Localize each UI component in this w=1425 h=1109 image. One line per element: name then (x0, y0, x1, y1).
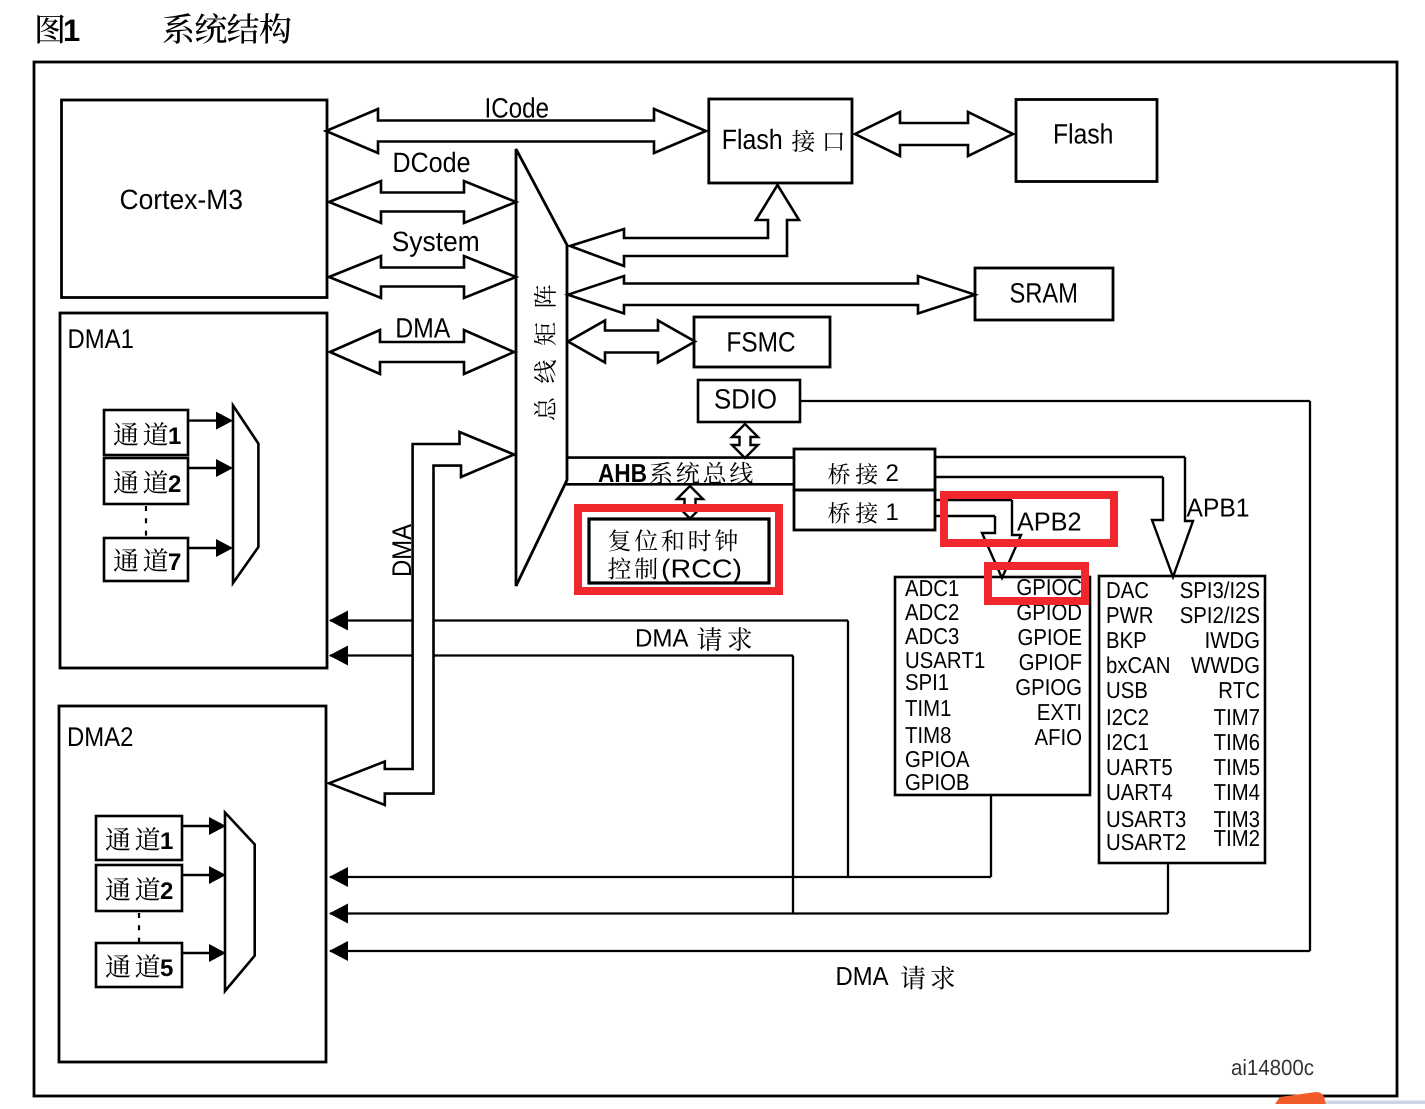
label periph I2C1 (1108, 734, 1148, 750)
wire DMA2 request lineB (330, 912, 1168, 914)
label Flash of Flash接口 (724, 129, 781, 150)
arrow matrix to SRAM (568, 276, 975, 314)
label 通道 of DMA1 ch1 (114, 422, 168, 446)
box SRAM (975, 268, 1113, 320)
box DMA2 channel2 (96, 865, 182, 911)
arrowhead DMA2 ch5 (209, 944, 226, 962)
label 通道 of DMA2 ch1 (106, 827, 160, 851)
label DMA of request1 (637, 629, 688, 646)
box Cortex-M3 (62, 100, 328, 298)
red highlight box RCC (578, 508, 779, 591)
wire drop x793 (792, 656, 794, 914)
wire DMA2 request lineC (330, 950, 1310, 952)
label periph IWDG (1206, 632, 1258, 648)
box bridge2 桥接2 (794, 449, 935, 490)
digit 1 of DMA2 ch1 (162, 832, 173, 849)
box APB1 peripherals (1099, 576, 1265, 863)
arrowhead DMA1 ch2 (216, 459, 233, 477)
wire right drop x1310 (1309, 401, 1311, 951)
label DCode (395, 152, 470, 173)
label periph TIM8 (905, 727, 950, 743)
label Cortex-M3 (121, 189, 242, 209)
digit 7 of DMA1 ch7 (169, 553, 180, 570)
title figure number 1 (65, 20, 79, 41)
label periph ADC2 (905, 604, 958, 620)
orange cursor shape bottom right (1275, 1092, 1326, 1104)
title figure label 图 (37, 15, 64, 44)
label periph ADC3 (905, 628, 958, 644)
wire drop x848 (847, 621, 849, 878)
label ICode (487, 97, 548, 118)
label (RCC) line2 (663, 559, 740, 583)
label periph UART5 (1108, 759, 1172, 775)
arrowhead DMA2 request lineB (329, 904, 348, 924)
wire right periph box drop x1168 (1167, 863, 1169, 914)
wire left periph box drop x991 (990, 795, 992, 877)
label 系统总线 of AHB (650, 462, 753, 484)
label periph BKP (1108, 632, 1146, 648)
label 通道 of DMA2 ch5 (106, 954, 160, 978)
wire AHB top line (567, 456, 794, 459)
label 复位和时钟 line1 of RCC (609, 529, 738, 551)
label periph SPI1 (906, 674, 948, 690)
arrowhead DMA2 ch1 (209, 817, 226, 835)
label periph EXTI (1038, 704, 1080, 720)
label AHB bold (599, 464, 646, 482)
label periph bxCAN (1107, 656, 1169, 673)
label 控制 line2 of RCC (608, 557, 657, 579)
label 桥接 of bridge2 (828, 463, 877, 484)
arrow DCode (329, 181, 516, 223)
label periph TIM7 (1214, 709, 1259, 725)
label Flash (1055, 123, 1112, 144)
mux trapezoid DMA1 (233, 406, 258, 584)
title text 系统结构 (163, 13, 290, 44)
label periph TIM4 (1214, 784, 1259, 800)
red highlight box APB2 (944, 495, 1114, 543)
label periph GPIOC (1017, 579, 1081, 595)
wire bridge2 right bottom (935, 476, 1163, 478)
digit 5 of DMA2 ch5 (161, 959, 173, 976)
arrow Flash接口 to Flash (855, 112, 1013, 156)
vertical label DMA (392, 524, 411, 575)
digit 2 of DMA2 ch2 (161, 882, 173, 899)
digit 1 of DMA1 ch1 (170, 427, 181, 444)
label periph SPI3/I2S (1181, 581, 1259, 598)
box DMA2 channel5 (96, 943, 182, 987)
label periph RTC (1220, 682, 1259, 698)
wire DMA1 request line2 (330, 654, 793, 656)
arrowhead DMA1 ch1 (216, 412, 233, 430)
wire DMA2 request lineA (330, 876, 991, 878)
wire DMA1 ch2 to mux (188, 467, 216, 469)
arrow APB1 head+shaft (1152, 457, 1193, 577)
label periph TIM1 (905, 700, 950, 716)
label periph GPIOG (1016, 679, 1080, 695)
label periph WWDG (1191, 657, 1258, 673)
box RCC inner (589, 519, 769, 583)
label periph GPIOD (1017, 604, 1081, 620)
label periph TIM5 (1214, 759, 1259, 775)
label periph TIM2 (1214, 830, 1259, 846)
wire DMA1 request line1 (330, 619, 848, 621)
dashed link DMA1 ch2-ch7 (145, 506, 147, 537)
box SDIO (698, 380, 800, 422)
label DMA2 (69, 727, 132, 746)
label periph USB (1108, 682, 1147, 698)
box DMA2 (59, 706, 326, 1062)
arrowhead DMA1 request line2 (329, 646, 348, 666)
label FSMC (728, 332, 794, 352)
arrow matrix to FSMC (568, 321, 695, 363)
wire bridge2 right top (935, 456, 1185, 458)
arrow matrix to Flash interface (570, 185, 799, 266)
label periph ADC1 (905, 580, 958, 596)
label DMA of request2 (837, 967, 888, 985)
label periph USART3 (1108, 811, 1186, 827)
wire DMA2 ch2 to mux (182, 874, 209, 876)
arrow System (329, 256, 516, 298)
label System (393, 231, 478, 256)
arrowhead DMA1 ch7 (216, 539, 233, 557)
label periph SPI2/I2S (1181, 606, 1259, 623)
pipe arrow DMA2 to bus matrix (329, 432, 514, 805)
pale blue band bottom right (1326, 1101, 1425, 1105)
wire bridge1 right top (935, 499, 1012, 501)
label 请求 of request1 (697, 627, 751, 651)
box Flash (1016, 100, 1157, 182)
arrow SDIO to AHB (732, 424, 758, 458)
label 通道 of DMA1 ch7 (114, 548, 168, 572)
digit 2 of bridge2 (887, 464, 898, 481)
label DMA bus (397, 318, 450, 337)
label SRAM (1011, 283, 1076, 303)
label periph GPIOA (906, 751, 969, 767)
label periph I2C2 (1108, 709, 1148, 725)
box FSMC (694, 317, 830, 367)
arrow AHB to RCC (677, 486, 703, 519)
dashed link DMA2 ch2-ch5 (138, 913, 140, 942)
label periph UART4 (1108, 784, 1173, 800)
wire bridge1 right bottom (935, 515, 995, 517)
red highlight box GPIOC (988, 566, 1085, 601)
label periph AFIO (1035, 729, 1081, 745)
wire DMA1 ch1 to mux (188, 419, 216, 421)
arrow APB2 head+shaft (982, 500, 1021, 578)
label periph GPIOE (1019, 629, 1082, 645)
label periph USART2 (1108, 834, 1186, 850)
box Flash interface (709, 99, 852, 183)
label ai14800c (1232, 1059, 1314, 1075)
bus matrix vertical label 总线矩阵 (534, 285, 556, 420)
digit 1 of bridge1 (887, 503, 897, 520)
box DMA2 channel1 (96, 816, 182, 860)
label periph TIM6 (1214, 734, 1259, 750)
arrowhead DMA1 request line1 (329, 611, 348, 631)
box DMA1 channel7 (104, 538, 188, 581)
label periph DAC (1108, 582, 1149, 598)
label periph PWR (1108, 607, 1153, 623)
label 请求 of request2 (901, 966, 954, 990)
box DMA1 channel2 (104, 458, 188, 504)
box DMA1 channel1 (104, 410, 188, 455)
label APB2 (1017, 512, 1080, 530)
box bridge1 桥接1 (794, 490, 935, 530)
arrowhead DMA2 ch2 (209, 866, 226, 884)
label periph USART1 (907, 652, 985, 668)
label periph TIM3 (1214, 811, 1259, 827)
bus matrix polygon (516, 149, 567, 586)
wire DMA2 ch1 to mux (182, 825, 209, 827)
arrowhead DMA2 request lineC (329, 941, 348, 961)
box APB2 peripherals (895, 577, 1090, 795)
wire SDIO to right drop (800, 400, 1310, 402)
arrow ICode (326, 109, 706, 153)
label 接口 of Flash接口 (792, 130, 843, 152)
label SDIO (715, 389, 776, 409)
label 桥接 of bridge1 (828, 502, 877, 523)
label APB1 (1187, 499, 1249, 517)
wire DMA1 ch7 to mux (188, 547, 216, 549)
arrow DMA1 to matrix (330, 330, 514, 374)
mux trapezoid DMA2 (225, 813, 255, 992)
label 通道 of DMA1 ch2 (114, 470, 168, 494)
digit 2 of DMA1 ch2 (169, 475, 181, 492)
box DMA1 (60, 313, 327, 668)
label periph GPIOB (906, 774, 968, 790)
wire AHB bottom line (565, 483, 794, 486)
label DMA1 (69, 329, 132, 348)
wire DMA2 ch5 to mux (182, 952, 209, 954)
label 通道 of DMA2 ch2 (106, 877, 160, 901)
label periph GPIOF (1020, 654, 1081, 670)
arrowhead DMA2 request lineA (329, 867, 348, 887)
